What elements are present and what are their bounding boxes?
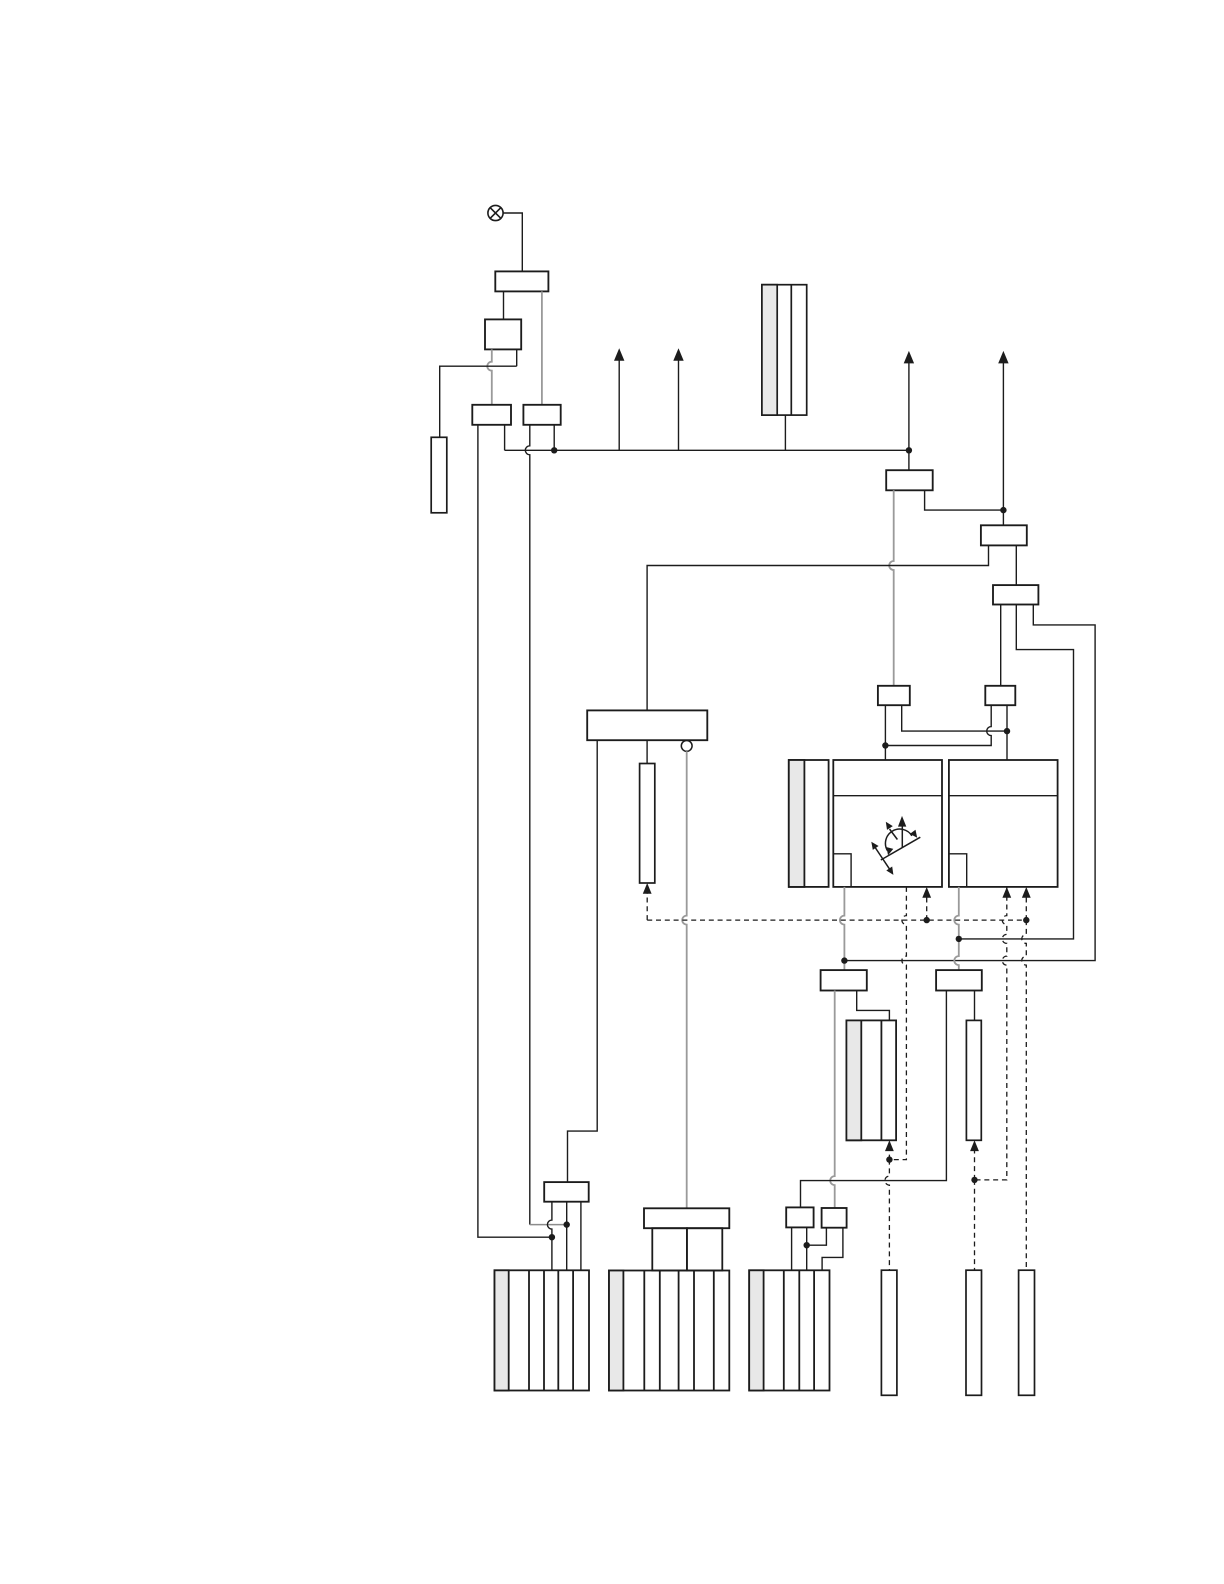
small circle port under WB (681, 741, 692, 752)
SB1 pin1 to block1 (jumps gray link wire) (547, 1202, 552, 1271)
wire B585 left pin to connector CR (1000, 605, 1002, 686)
pillar connector a (652, 1228, 687, 1270)
long wire W1 left pin down to block1 feed (478, 425, 552, 1237)
wide box W2 (breaker) (523, 405, 560, 425)
big module M2 (drive unit) (949, 760, 1058, 887)
junction dot dashed bus at M2 arrow (1023, 917, 1029, 923)
dashed arrow into striped low box bottom (885, 1140, 894, 1159)
box B585 (switch) (993, 585, 1038, 604)
junction dot A3 pin2 (804, 1242, 810, 1248)
wire tab to tall rect (440, 366, 517, 437)
SB1 pin2 to block1 (566, 1202, 568, 1271)
wire B585 right pin loop to gray node (line A) (844, 605, 1095, 961)
junction dot dashed bus at M1 arrow (924, 917, 930, 923)
wire striped box to bus (784, 415, 786, 450)
gray link wire to block1 pin2 (530, 1224, 567, 1226)
long gray wire circle port to block2 feed box (jumps dashed line) (682, 751, 687, 1208)
dashed drop M2 to rect D2 (jumps lines) (1002, 887, 1011, 898)
mid wide box WB (distribution) (587, 710, 707, 740)
box L1 (contactor) (821, 970, 867, 990)
wire T1 to T2 (503, 291, 505, 319)
feeder arrow 4 (998, 351, 1008, 510)
bottom rect D1 (881, 1270, 897, 1395)
box B470 (main switch) (886, 470, 933, 490)
dashed feedback bus horizontal (647, 919, 1026, 921)
wire CL right pin across to CR right pin (crossed line) (902, 705, 1007, 731)
A3 pin2 to block3 (806, 1227, 808, 1270)
wire R1 right pin to narrow rect NR2 (974, 991, 976, 1021)
terminal notch inside M2 (949, 854, 967, 887)
junction dot dashed at NR2 arrow (971, 1177, 977, 1183)
wire bus to box B470 (908, 450, 910, 470)
wire lamp to box T1 (503, 213, 522, 271)
narrow rect NR1 (meter element) (640, 764, 655, 884)
feed box FB2 (block2 feed) (644, 1208, 729, 1228)
wire B3 right pin to block3 (822, 1228, 843, 1271)
gray feeder wire T1 to W2 (541, 291, 543, 404)
wire W1 right pin to bus (504, 425, 506, 451)
feeder arrow 1 (614, 348, 624, 450)
dashed arrow into narrow rect NR2 bottom (970, 1140, 979, 1180)
dashed arrow into NR1 bottom (643, 883, 652, 920)
junction dot pin2 (564, 1221, 570, 1227)
junction dot on gray wire at line B (956, 936, 962, 942)
pillar connector b (687, 1228, 722, 1270)
narrow rect NR2 (meter element) (966, 1020, 981, 1140)
box A3 (block3 feed left) (786, 1207, 813, 1227)
junction dot on gray wire at line A (841, 957, 847, 963)
connector box CL (878, 686, 910, 705)
wire W2 right pin to bus junction (553, 425, 555, 451)
box R1 (contactor) (936, 970, 982, 990)
box B3 (block3 feed right) (822, 1208, 847, 1228)
dashed drop M2 right to rect D3 (jumps lines) (1022, 920, 1027, 1270)
terminal notch inside M1 (833, 854, 851, 887)
box T1 (incoming breaker) (495, 271, 548, 291)
feeder arrow 3 (904, 351, 914, 450)
wire B470 right pin to junction (925, 490, 1004, 510)
terminal block 1 (495, 1270, 590, 1390)
connector box CR (985, 686, 1015, 705)
striped aux module beside M1 (789, 760, 829, 887)
junction dot bus right end (906, 447, 912, 453)
junction dot CL pin (882, 742, 888, 748)
feeder arrow 2 (673, 348, 683, 450)
junction dot pin1 (549, 1234, 555, 1240)
bottom rect D2 (966, 1270, 982, 1395)
junction dot on CR right pin (1004, 728, 1010, 734)
junction dot above B525 (1000, 507, 1006, 513)
tab pin of T2 (516, 349, 518, 366)
big module M1 (drive unit) (833, 760, 942, 887)
wire junction to B525 (1002, 510, 1004, 525)
wire CR left pin across to CL left pin (jumps crossing) (885, 705, 991, 745)
dashed arrow into M2 bottom (1022, 887, 1031, 920)
wide box W1 (breaker) (472, 405, 511, 425)
junction dot dashed at striped low arrow (886, 1156, 892, 1162)
junction dot on bus (551, 447, 557, 453)
wire L1 right pin to striped low box (857, 991, 890, 1021)
wire WB mid pin to narrow rect NR1 (646, 740, 648, 763)
box B525 (switch) (981, 525, 1027, 545)
gray wire M2 notch to box R1 (jumps dashed and solid lines) (954, 887, 959, 970)
wire WB left pin stepping down to small box SB1 (568, 740, 598, 1182)
wire CR right pin to big module M2 (1006, 705, 1008, 760)
dashed arrow into M1 bottom (922, 887, 931, 920)
SB1 pin3 to block1 (580, 1202, 582, 1271)
wire B585 mid pin loop to gray node (line B) (959, 605, 1074, 939)
dashed drop M1 to striped low box / rect D1 (jumps lines) (889, 887, 906, 1160)
wire CL left pin to big module M1 (884, 705, 886, 760)
motion/angle icon inside M1 (871, 816, 920, 875)
lamp/indicator symbol (488, 205, 503, 220)
gray wire L1 to box B3 (jumps solid line) (830, 991, 835, 1209)
wire B525 right pin to B585 (1015, 545, 1017, 585)
long wire W2 left pin down to block1 feed (jumps bus) (525, 425, 530, 1225)
A3 pin1 to block3 (791, 1227, 793, 1270)
gray wire M1 notch to box L1 (jumps dashed feedback line) (840, 887, 845, 970)
wire R1 left pin loop to box A3 (801, 991, 947, 1208)
box T2 (transformer) (485, 319, 521, 349)
tall rectangle (fuse/riser) (431, 437, 447, 513)
wire B3 left pin to A3 pin2 (807, 1228, 827, 1246)
dashed drop to bottom rect D1 (jumps solid line) (885, 1160, 890, 1271)
main bus wire (505, 449, 909, 451)
bottom rect D3 (1019, 1270, 1035, 1395)
striped low box (filter) (846, 1020, 896, 1140)
gray wire B470 to connector CL (jumps horizontal) (889, 490, 894, 686)
dashed drop to bottom rect D2 (974, 1180, 976, 1270)
gray feeder wire T2 to W1 (jumps horizontal wire) (487, 349, 492, 404)
terminal block 3 (749, 1270, 829, 1390)
wire B525 left pin to mid wide box WB (647, 545, 988, 710)
terminal block 2 (609, 1271, 729, 1391)
small box SB1 (block1 feed) (544, 1182, 589, 1202)
striped capacitor bank box (762, 285, 807, 415)
